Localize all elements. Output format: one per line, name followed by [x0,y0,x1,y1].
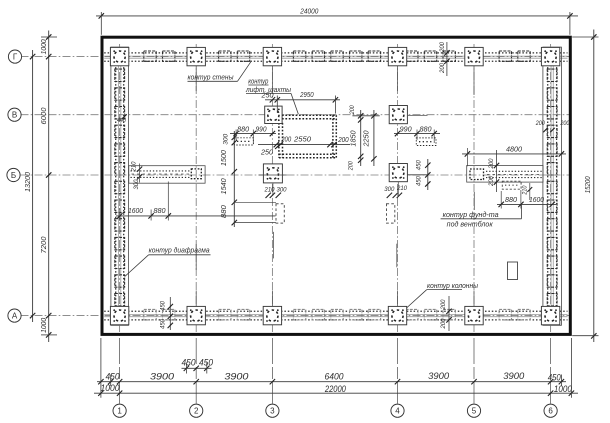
svg-text:2550: 2550 [293,137,311,144]
svg-text:450: 450 [416,160,423,171]
svg-text:200: 200 [535,120,545,127]
svg-text:3: 3 [270,407,275,416]
svg-text:24000: 24000 [299,8,318,15]
dimension 200/200 crossing bottom wall near x=449 [448,296,450,331]
svg-text:880: 880 [505,197,517,204]
column at axis 1 x Г [110,47,128,65]
svg-text:450: 450 [106,372,121,382]
dimension 450+450 at axis 2 (bottom, small) [182,367,212,369]
svg-text:450: 450 [160,318,167,329]
vent block foundation pad right of axis 4 [416,138,436,146]
axis circle Г (left) [8,50,21,63]
dashed pad of right diaphragm arm at axis 5 [470,169,484,180]
svg-text:1540: 1540 [221,178,228,194]
grid line axis В (horizontal dash-dot) [21,114,570,116]
axis circle 1 (bottom) [113,404,126,417]
svg-text:200: 200 [560,120,570,127]
elevator shaft top band [282,114,337,116]
column at axis 3 x В (elevator shaft corner) [265,106,282,123]
column at axis 6 x А [541,306,559,324]
dimension 210/300 below column 3-Б [266,193,271,198]
dimension 880/990 left of axis 3 [230,133,276,135]
svg-text:450: 450 [182,358,197,368]
axis 2 solid segment at диафрагма label [195,244,197,270]
svg-text:4800: 4800 [506,147,522,154]
svg-text:1500: 1500 [221,150,228,166]
axis 3 tail below top column [271,66,273,91]
grid line axis 5 (vertical below building) [473,338,475,404]
grid line axis 1 (vertical dash-dot inside building) [119,44,121,336]
dimension 200/2550/200 inside elevator shaft [258,144,350,146]
svg-text:880: 880 [154,208,166,215]
axis 5 tail below top column [473,66,475,95]
svg-text:450: 450 [199,358,214,368]
svg-text:210: 210 [522,185,529,195]
svg-text:210: 210 [396,185,408,192]
elevator shaft bottom band [279,153,337,155]
dimension 200/1850/200 (right of shaft) [360,110,362,166]
centre line right of column 4-В [407,114,427,116]
svg-text:210: 210 [131,161,138,173]
dimension 210/300 at left arm [137,167,142,172]
svg-text:4: 4 [395,407,400,416]
axis 3 solid segment below foundation box [273,232,275,259]
grid line axis 5 (vertical dash-dot inside building) [473,44,475,336]
axis circle 5 (bottom) [467,404,480,417]
svg-text:250: 250 [260,149,273,156]
svg-text:300: 300 [223,133,230,145]
axis circle 2 (bottom) [190,404,203,417]
svg-text:3900: 3900 [428,371,450,381]
wall strip along right side (axis 6) [543,47,562,325]
column at axis 2 x Г [187,47,205,65]
axis 5 tail above bottom column [473,291,475,307]
grid line axis 2 (vertical below building) [195,338,197,404]
grid line axis Г (horizontal dash-dot) [21,56,570,58]
axis circle А (left) [8,309,21,322]
svg-text:450: 450 [548,373,562,383]
column at axis 4 x Г [388,47,406,65]
dashed pad of left diaphragm arm at axis 2 [191,169,201,179]
svg-text:200: 200 [488,175,495,187]
svg-text:под вентблок: под вентблок [447,220,494,228]
svg-text:200: 200 [337,137,348,144]
grid line axis 6 (vertical below building) [550,338,552,404]
svg-text:А: А [12,312,18,321]
svg-text:7200: 7200 [41,236,48,253]
svg-text:3900: 3900 [503,371,525,381]
svg-text:1000: 1000 [101,383,121,393]
svg-text:2: 2 [194,407,199,416]
svg-text:200: 200 [349,105,356,115]
svg-text:Г: Г [13,53,18,62]
grid line axis 2 (vertical dash-dot inside building) [195,44,197,336]
axis 3 tail above bottom column [271,291,273,307]
svg-text:200: 200 [488,158,495,170]
svg-text:контур: контур [248,79,268,86]
wall band along bottom (axis А), dashed block texture [104,310,567,312]
diaphragm arm contour at axis Б, left side [129,166,205,184]
svg-text:1850: 1850 [350,130,357,146]
dimension 210 below right arm [527,187,532,192]
svg-text:990: 990 [400,126,412,133]
svg-text:6000: 6000 [41,107,48,124]
svg-text:2950: 2950 [299,92,313,99]
svg-text:3900: 3900 [224,372,249,382]
svg-text:6400: 6400 [325,371,345,381]
svg-text:1600: 1600 [128,208,143,215]
svg-text:В: В [12,111,17,120]
svg-text:22000: 22000 [324,384,347,394]
grid line axis 3 (vertical dash-dot inside building) [271,44,273,336]
svg-text:1000: 1000 [41,39,48,54]
dimension chain bottom overall (1000/22000/1000) [94,392,578,394]
axis 4 solid segment below foundation box [396,244,398,268]
svg-text:450: 450 [160,300,167,311]
grid line axis 6 (vertical dash-dot inside building) [550,44,552,336]
centre cross of column 3-Б [259,174,287,176]
column at axis 5 x Г [465,47,483,65]
wall strip along left side (axis 1) [111,47,129,325]
axis 4 tail above bottom column [397,291,399,307]
column at axis 3 x А [263,306,281,324]
svg-text:880: 880 [237,126,249,133]
svg-text:300: 300 [133,179,140,190]
svg-text:1600: 1600 [529,197,544,204]
grid line axis 3 (vertical below building) [271,338,273,404]
column at axis 5 x А [465,306,483,324]
column at axis 4 x А [388,306,406,324]
svg-text:450: 450 [416,176,423,187]
axis circle В (left) [8,108,21,121]
column at axis 2 x А [187,306,205,324]
column at axis 1 x А [110,306,128,324]
svg-text:300: 300 [277,187,288,194]
axis 3 tail below column 3-Б [272,183,274,196]
building outline (thick contour) [102,37,570,334]
diaphragm arm contour at axis Б, right side [467,166,543,183]
svg-text:2250: 2250 [364,130,371,147]
elevator shaft left band [278,123,280,158]
svg-text:1000: 1000 [41,318,48,333]
svg-text:15200: 15200 [585,176,592,193]
dimension 2250 (right of shaft) [373,110,375,166]
svg-text:5: 5 [472,407,477,416]
axis 2 tail below top column [195,66,197,91]
dimension 200/200 crossing right arm [496,150,498,192]
dashed footprint box below column 3-Б [276,204,284,223]
grid line axis 4 (vertical dash-dot inside building) [397,44,399,336]
axis 4 tail below column 4-Б [397,181,399,196]
axis circle 6 (bottom) [544,404,557,417]
dimension line 15200 (right) [593,30,595,343]
column at axis 4 x В [389,106,407,124]
svg-text:1: 1 [117,407,122,416]
dimension 1600/880 at left arm [116,215,276,217]
svg-text:200: 200 [348,161,355,171]
svg-text:Б: Б [11,171,16,180]
svg-text:3900: 3900 [150,372,175,382]
svg-text:440: 440 [117,117,126,124]
grid line axis А (horizontal dash-dot) [21,315,570,317]
dimension 200/200 crossing top wall near x=447 [446,42,448,76]
axis circle 4 (bottom) [391,404,404,417]
wall band along top (axis Г), dashed block texture [104,52,567,54]
axis circle 3 (bottom) [266,404,279,417]
svg-text:контур фунд-та: контур фунд-та [443,211,499,219]
svg-text:200: 200 [439,41,446,53]
svg-text:13200: 13200 [25,172,32,192]
column at axis 4 x Б [389,164,407,182]
dimension 300/210 below column 4-Б [387,193,392,198]
svg-text:контур колонны: контур колонны [427,283,479,290]
vent block foundation pad below right arm [502,181,521,189]
svg-text:880: 880 [420,126,432,133]
dimension 880/1600 below right arm [497,203,556,205]
svg-text:лифт. шахты: лифт. шахты [245,87,292,94]
svg-text:200: 200 [439,62,446,74]
dimension chain left inner (1000/6000/7200/1000) [48,31,50,343]
elevator shaft right band [332,115,334,157]
axis 4 tail below top column [397,66,399,91]
column at axis 3 x Г [263,47,281,65]
column at axis 6 x Г [541,47,559,65]
svg-text:300: 300 [384,186,395,193]
svg-text:990: 990 [256,126,267,133]
dimension 250/2980 above elevator shaft [265,99,340,101]
small hollow rectangle detail [508,262,518,280]
dimension chain bottom (450/3900/3900/6400/3900/3900/450) [97,381,566,383]
grid line axis Б (horizontal dash-dot) [21,174,570,176]
dimension 450/450 crossing bottom wall near axis 2 [169,297,171,330]
svg-text:6: 6 [548,407,553,416]
dimension 990/880 right of axis 4 [394,133,440,135]
vent block foundation pad left of axis 3 [234,138,253,145]
svg-text:контур диафрагма: контур диафрагма [149,247,210,255]
column at axis 3 x Б [263,164,282,183]
axis circle Б (left) [7,168,20,181]
svg-text:200: 200 [440,318,447,330]
svg-text:210: 210 [264,187,276,194]
grid line axis 1 (vertical below building) [119,338,121,404]
dimension line 24000 (top) [96,15,578,17]
grid line axis 4 (vertical below building) [397,338,399,404]
dimension line 13200 (left outer) [32,50,34,322]
axis 2 tail above bottom column [195,291,197,307]
svg-text:200: 200 [440,299,447,311]
axis 5 solid segment below right arm [473,192,475,210]
dimension 450/450 right of column 4-Б [427,159,429,190]
dimension chain 300/1500/1540/880 (left of shaft) [233,131,235,227]
svg-text:200: 200 [280,137,291,144]
svg-text:1000: 1000 [554,384,573,394]
dimension 4800 above right arm [462,153,566,155]
svg-text:контур стены: контур стены [188,75,235,82]
dashed footprint box below column 4-Б [387,204,395,223]
